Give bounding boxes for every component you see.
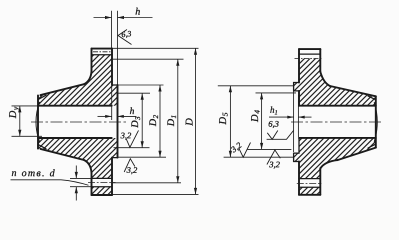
fillet top [84,71,92,84]
bolt hole d arrows [70,166,92,201]
Dy extensions [12,105,43,107]
bolt hole axis right [297,183,322,185]
hub end chamfer top [38,95,46,99]
D dim [195,48,197,194]
h top extension lines [111,11,113,49]
bolt hole axis [88,182,116,184]
hatch bottom band [92,187,113,195]
h1 extensions [293,91,295,152]
D2 arrows [158,85,161,92]
fillet top [320,72,330,86]
svg-text:3,2: 3,2 [126,165,138,175]
hatch upper body [294,59,376,106]
taper top [41,84,85,95]
bottom edge [299,194,320,196]
D3 dim [141,93,143,148]
box solid line [92,54,113,56]
box top edge [299,48,320,50]
hub end face [375,96,377,147]
box dash-dot [93,51,111,53]
bore chamfer arc right [374,103,377,142]
plate right face upper [319,49,321,72]
taper bottom [337,148,375,161]
hub end chamfer bottom [38,144,46,148]
svg-text:D: D [184,118,195,127]
Dy arrows [18,106,21,113]
h top arrows [105,16,112,19]
bore chamfer arc [36,102,40,141]
roughness 6,3 left [118,30,132,45]
box solid line [299,53,320,55]
main axis right [291,121,382,123]
bolt hole top [299,178,320,180]
svg-text:6,3: 6,3 [268,119,279,129]
roughness 3,2 at D5 [239,143,251,158]
roughness 3,2 lower (inverted) [124,159,135,172]
bore bottom [299,137,376,139]
step top [112,84,118,86]
D4 arrows [260,93,263,100]
hatch lower body [294,138,376,179]
svg-text:h: h [135,7,140,18]
arrowheads [18,16,197,195]
bolt hole bottom [299,186,320,188]
face upper [298,49,300,82]
hatch lower body [38,138,118,178]
D3 arrows [141,93,144,100]
hub end chamfer bottom [368,144,376,148]
taper bottom [41,149,85,160]
main axis left [31,121,129,123]
plate right face lower [319,168,321,195]
ring bottom [294,153,299,161]
h1 arrows [287,116,293,119]
hatch upper body [38,55,118,106]
box dash-dot right [295,58,322,60]
face between rings [298,91,300,106]
roughness 3,2 upper [126,130,138,147]
bore bottom [38,137,112,139]
D1 arrows [176,59,179,65]
fillet bottom [321,160,338,168]
bolt hole top [92,177,113,179]
Dy dim line [19,106,21,136]
D2 dim [159,85,161,157]
bolt hole bottom [92,186,113,188]
h inner extensions [111,85,113,120]
hatch bottom band [299,187,320,195]
roughness 3,2 lower right (inverted) [267,150,280,165]
hub end chamfer top [368,96,376,100]
svg-text:h: h [130,107,135,117]
D arrows [194,48,197,55]
svg-text:п отв. d: п отв. d [11,168,56,179]
plate left face lower [91,173,93,195]
step bottom [112,157,118,159]
D5 [229,86,231,157]
bore top [38,105,112,107]
bore top [299,105,376,107]
svg-text:3,2: 3,2 [120,130,132,140]
hub end face [37,95,39,148]
h1 dim lines [269,116,294,118]
svg-text:6,3: 6,3 [121,29,132,39]
h top dim lines [94,17,112,19]
D4 [261,93,263,149]
plate right face upper [111,49,113,85]
plate bottom edge [92,194,113,196]
h inner dim lines [98,115,112,117]
plate top edge [92,48,113,50]
plate right face lower [111,158,113,195]
svg-text:3,2: 3,2 [268,159,280,169]
spigot face [117,85,119,158]
h inner arrows [105,115,111,118]
ring top [294,83,299,91]
face mid [298,91,300,106]
face lower [298,162,300,195]
plate left face upper [91,49,93,72]
fillet bottom [84,160,92,173]
taper top [330,86,376,96]
D5 arrows [229,86,232,93]
D1 dim [177,59,179,183]
